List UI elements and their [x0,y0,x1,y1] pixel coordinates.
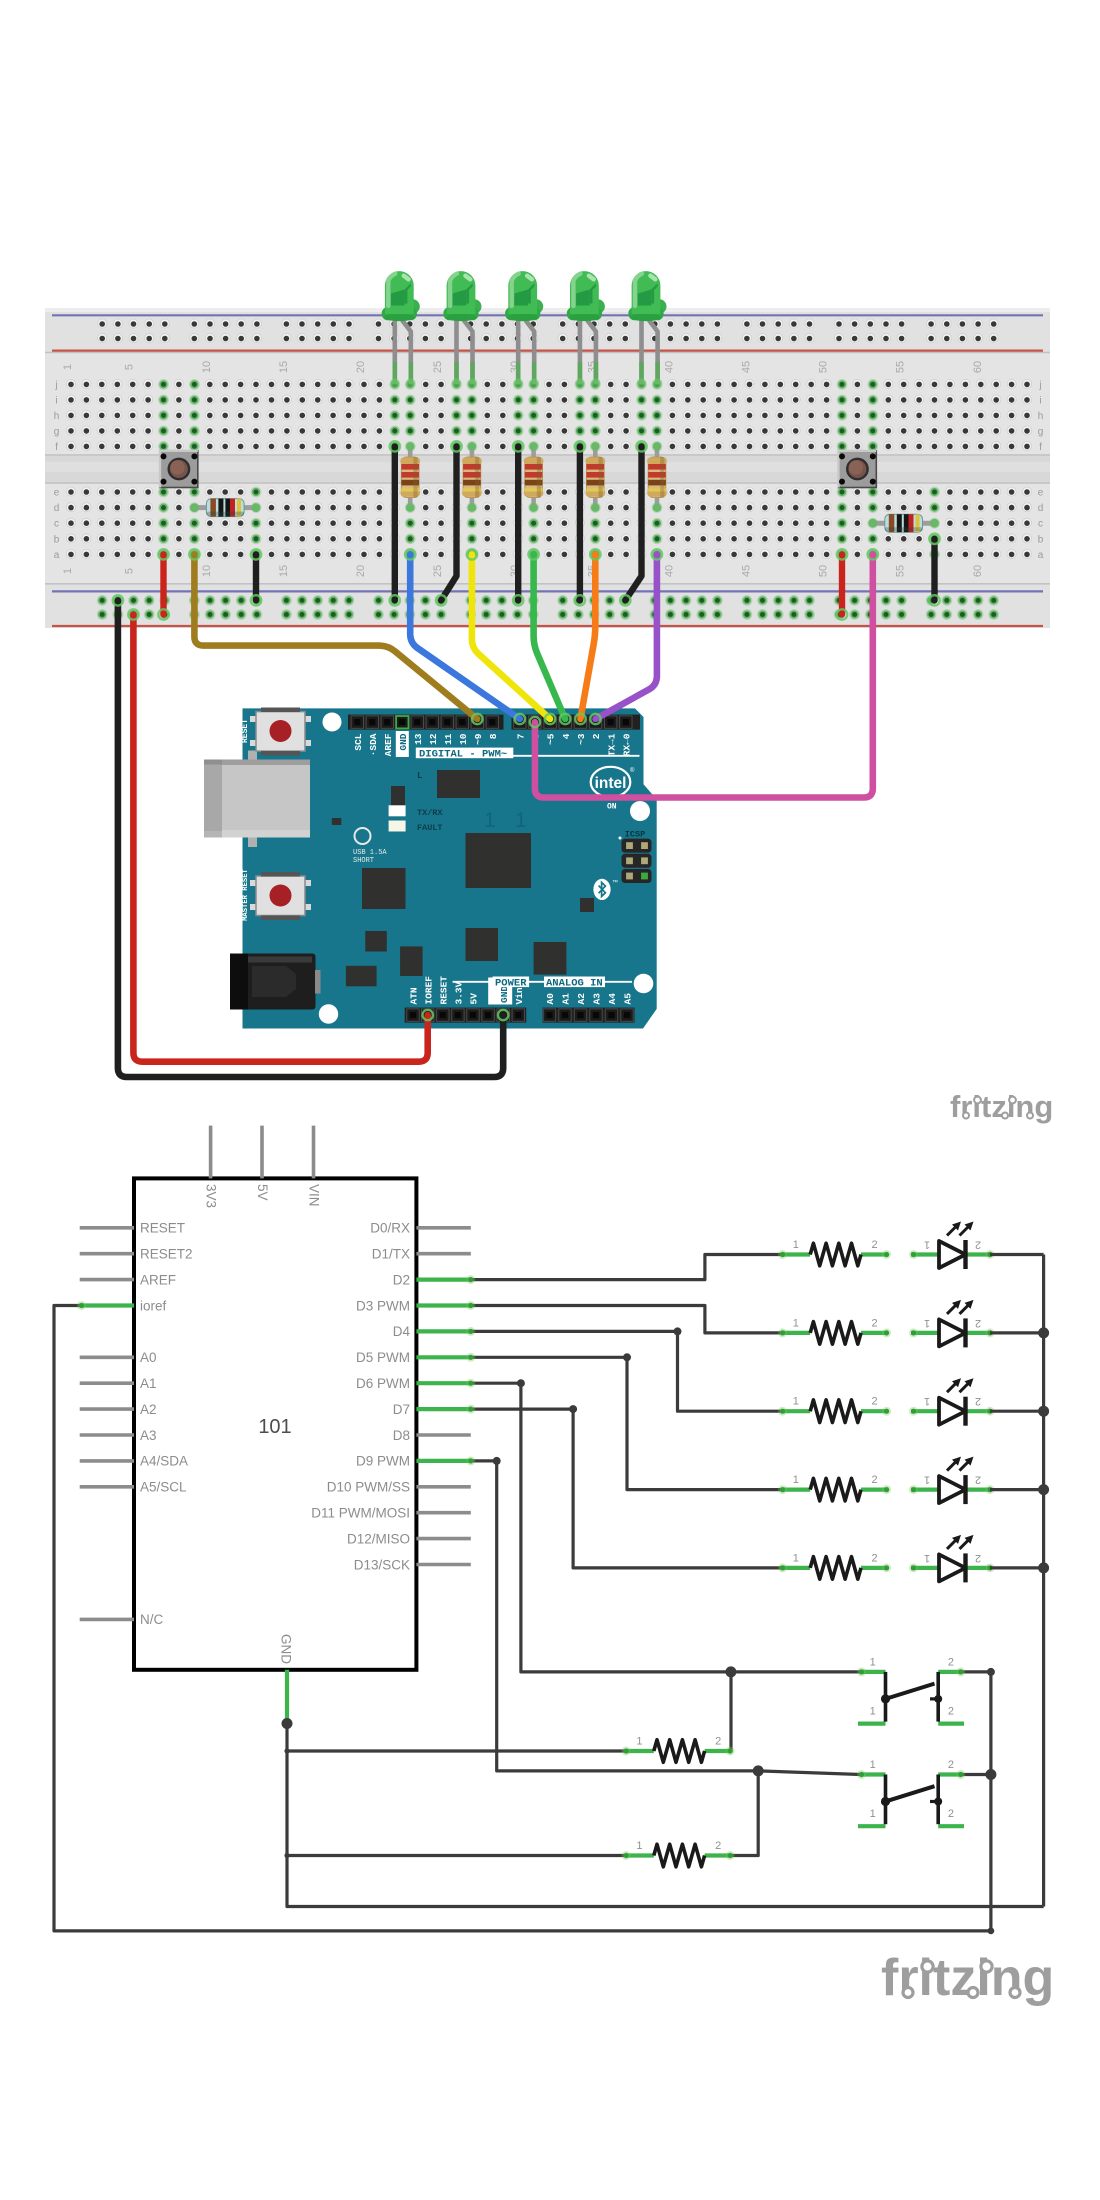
svg-text:i: i [55,395,57,406]
svg-text:13: 13 [413,733,424,745]
svg-text:b: b [1038,534,1044,545]
svg-text:15: 15 [278,565,290,577]
svg-text:1: 1 [793,1552,799,1564]
svg-text:1: 1 [924,1317,930,1329]
svg-text:20: 20 [355,361,367,373]
svg-text:DIGITAL - PWM~: DIGITAL - PWM~ [419,748,507,760]
wire black (LED cathode col22 row F to bottom blue rail) [390,441,400,605]
svg-text:5V: 5V [469,993,480,1005]
svg-text:10: 10 [458,733,469,745]
wire magenta (pin 6 to S2 col53) [530,549,878,797]
svg-text:55: 55 [895,361,907,373]
svg-text:c: c [1038,519,1043,530]
resistor R12 (schematic, LED row 5) [778,1552,891,1579]
pushbutton S2 (breadboard) [839,451,877,488]
svg-text:c: c [54,519,59,530]
wire net D6 to S1 [466,1379,860,1678]
wire R6 to D6 net [729,1672,732,1751]
svg-text:d: d [1038,503,1044,514]
svg-text:D1/TX: D1/TX [372,1247,410,1262]
svg-text:45: 45 [741,361,753,373]
svg-text:FAULT: FAULT [417,823,443,833]
Arduino 101 board [204,708,657,1029]
svg-text:A1: A1 [561,993,572,1005]
svg-text:1: 1 [870,1706,876,1718]
wire R7 to D9 net [731,1771,758,1856]
svg-text:~9: ~9 [473,733,484,745]
svg-text:a: a [1038,550,1044,561]
svg-text:A4/SDA: A4/SDA [140,1454,188,1469]
intel logo [591,767,635,797]
resistor R6 220R (breadboard, vertical) [586,442,606,512]
svg-text:1: 1 [484,809,496,832]
svg-text:2: 2 [948,1656,954,1668]
svg-text:1: 1 [636,1840,642,1852]
resistor R3 220R (breadboard, vertical) [400,442,420,512]
svg-text:g: g [54,426,60,437]
svg-text:A2: A2 [140,1402,157,1417]
IC U1 Arduino/Genuino 101 (schematic) [80,1126,471,1722]
svg-text:2: 2 [948,1808,954,1820]
LED LED1 (green, breadboard) [382,271,420,388]
wire net D2 to LED1 [466,1255,782,1285]
svg-text:GND: GND [279,1634,294,1664]
svg-text:10: 10 [201,361,213,373]
wire black (bottom blue rail to Arduino GND) [113,595,509,1077]
svg-text:POWER: POWER [495,977,527,989]
resistor R11 (schematic, LED row 4) [778,1474,891,1501]
ICs / chips on board [332,770,594,986]
LED D1 (schematic) [909,1222,995,1270]
svg-text:2: 2 [975,1395,981,1407]
svg-text:50: 50 [818,565,830,577]
pushbutton S1 (breadboard) [160,451,198,488]
svg-text:h: h [54,411,60,422]
svg-text:D7: D7 [393,1402,410,1417]
svg-text:AREF: AREF [383,733,394,756]
svg-text:1: 1 [870,1656,876,1668]
resistor R6 (schematic, S1 pulldown) [622,1736,735,1763]
svg-text:A0: A0 [545,993,556,1005]
svg-text:RESET2: RESET2 [140,1247,193,1262]
svg-text:ICSP: ICSP [625,830,645,840]
svg-text:2: 2 [591,733,602,739]
wire red (bottom red rail to Arduino IOREF) [128,609,433,1061]
svg-text:1: 1 [793,1396,799,1408]
svg-text:2: 2 [975,1317,981,1329]
wire net D4 to LED3 [466,1327,782,1411]
svg-text:2: 2 [948,1706,954,1718]
svg-text:2: 2 [872,1317,878,1329]
svg-text:60: 60 [972,361,984,373]
LED LED4 (green, breadboard) [567,271,605,388]
svg-text:j: j [54,380,57,391]
svg-text:D0/RX: D0/RX [370,1221,410,1236]
svg-text:D10 PWM/SS: D10 PWM/SS [327,1480,410,1495]
svg-text:D2: D2 [393,1272,410,1287]
wire S1/S2 pin2 vertical [962,1668,997,1931]
svg-text:d: d [54,503,60,514]
svg-text:e: e [1038,488,1044,499]
svg-text:N/C: N/C [140,1612,164,1627]
svg-text:™: ™ [612,879,618,886]
svg-text:ioref: ioref [140,1298,167,1313]
resistor R1 10k (breadboard, horizontal) [190,499,260,517]
svg-text:25: 25 [432,565,444,577]
svg-text:D12/MISO: D12/MISO [347,1531,410,1546]
svg-text:40: 40 [663,565,675,577]
fritzing logo (small) [950,1089,1053,1124]
svg-text:g: g [1038,426,1044,437]
wire LED D1 to bus [990,1253,1044,1256]
wire purple (col39 to pin 2) [590,549,662,724]
resistor R8 (schematic, LED row 1) [778,1239,891,1266]
wire black (LED cathode col34 row F to bottom blue rail) [575,441,585,605]
wire black (LED cathode col30 row F to bottom blue rail) [513,441,523,605]
svg-text:MASTER RESET: MASTER RESET [242,868,250,920]
resistor R7 (schematic, S2 pulldown) [622,1840,735,1867]
LED LED2 (green, breadboard) [443,271,481,387]
barrel jack power connector [230,954,321,1010]
svg-text:f: f [1039,442,1042,453]
wire net D5 to LED4 [466,1353,782,1490]
svg-text:VIN: VIN [307,1184,322,1207]
bluetooth logo [593,879,618,900]
svg-text:~3: ~3 [576,733,587,745]
analog header strip [543,1008,635,1023]
svg-text:11: 11 [443,733,454,745]
svg-text:1: 1 [793,1474,799,1486]
wire black (LED cathode col26 row F to bottom blue rail) [436,441,462,605]
svg-text:2: 2 [872,1552,878,1564]
wire net D3 to LED2 [466,1301,782,1333]
wire black (LED cathode col38 row F to bottom blue rail) [620,441,647,605]
resistor R2 10k (breadboard, horizontal) [868,514,939,532]
svg-text:D8: D8 [393,1428,410,1443]
svg-text:2: 2 [975,1239,981,1251]
svg-text:TX/RX: TX/RX [417,808,443,818]
svg-text:L: L [417,771,422,781]
wire S2 pin2 link [962,1773,991,1776]
LED D3 (schematic) [909,1378,995,1426]
svg-text:RESET: RESET [241,719,250,743]
pushbutton S2 (schematic) [857,1759,965,1826]
svg-text:D5 PWM: D5 PWM [356,1350,410,1365]
svg-text:ATN: ATN [409,987,420,1004]
svg-text:ON: ON [607,803,617,812]
svg-text:40: 40 [663,361,675,373]
LED LED5 (green, breadboard) [628,271,666,388]
svg-text:A3: A3 [592,993,603,1005]
svg-text:1: 1 [793,1239,799,1251]
svg-text:A3: A3 [140,1428,157,1443]
svg-text:A5/SCL: A5/SCL [140,1480,187,1495]
svg-text:b: b [54,534,60,545]
svg-text:~5: ~5 [546,733,557,745]
svg-text:RESET: RESET [140,1221,185,1236]
svg-text:1: 1 [870,1759,876,1771]
svg-text:D3 PWM: D3 PWM [356,1298,410,1313]
svg-text:50: 50 [818,361,830,373]
svg-text:RESET: RESET [438,976,449,1005]
svg-text:SCL: SCL [353,733,364,750]
wire yellow (col27 to pin 5) [467,549,556,724]
ICSP header [619,830,652,884]
wire LED D3 to bus [990,1410,1044,1413]
svg-text:SHORT: SHORT [353,857,374,865]
svg-text:1: 1 [515,809,527,832]
svg-text:60: 60 [972,565,984,577]
wire green (col31 to pin 4) [528,549,570,724]
svg-text:20: 20 [355,565,367,577]
svg-text:RX←0: RX←0 [621,733,632,756]
svg-text:A2: A2 [576,993,587,1005]
svg-text:j: j [1038,380,1041,391]
svg-text:12: 12 [428,733,439,745]
wire red (S2 col51 row A to bottom red rail) [837,549,847,620]
wire LED cathode bus [1038,1255,1049,1907]
svg-text:2: 2 [872,1474,878,1486]
wire net GND [282,1718,1044,1907]
svg-text:1: 1 [62,364,74,370]
svg-text:1: 1 [924,1474,930,1486]
RESET button [250,708,311,756]
svg-text:45: 45 [741,565,753,577]
wire LED D4 to bus [990,1488,1044,1491]
resistor R10 (schematic, LED row 3) [778,1396,891,1423]
svg-text:i: i [1039,395,1041,406]
wire brown (S1 col9 to pin 9) [189,549,482,724]
svg-text:D6 PWM: D6 PWM [356,1376,410,1391]
svg-text:1: 1 [62,568,74,574]
wire orange (col35 to pin 3) [575,549,600,724]
svg-text:1: 1 [924,1239,930,1251]
svg-text:101: 101 [258,1416,291,1438]
wire LED D2 to bus [990,1331,1044,1334]
resistor R4 220R (breadboard, vertical) [462,442,482,512]
svg-text:e: e [54,488,60,499]
svg-text:USB 1.5A: USB 1.5A [353,849,387,857]
svg-text:1: 1 [636,1736,642,1748]
breadboard [45,308,1050,628]
svg-text:A5: A5 [623,993,634,1005]
svg-text:2: 2 [948,1759,954,1771]
svg-text:D4: D4 [393,1324,411,1339]
wire net D9 to S2 [466,1456,860,1776]
svg-text:D13/SCK: D13/SCK [354,1557,410,1572]
svg-text:5: 5 [124,364,136,370]
LED D4 (schematic) [909,1457,995,1505]
resistor R7 220R (breadboard, vertical) [647,442,667,512]
resistor R9 (schematic, LED row 2) [778,1317,891,1344]
svg-text:D11 PWM/MOSI: D11 PWM/MOSI [311,1506,410,1521]
svg-text:5V: 5V [255,1184,270,1201]
svg-text:2: 2 [975,1552,981,1564]
svg-text:intel: intel [595,775,627,792]
svg-text:3V3: 3V3 [204,1184,219,1208]
svg-text:1: 1 [793,1317,799,1329]
svg-text:a: a [54,550,60,561]
svg-text:1: 1 [924,1552,930,1564]
LED D5 (schematic) [909,1535,995,1583]
svg-text:A1: A1 [140,1376,157,1391]
wire net D7 to LED5 [466,1405,782,1568]
LED LED3 (green, breadboard) [505,271,543,388]
USB connector [204,751,310,848]
svg-text:8: 8 [488,733,499,739]
svg-text:5: 5 [124,568,136,574]
svg-text:10: 10 [201,565,213,577]
MASTER RESET button [250,872,311,920]
pushbutton S1 (schematic) [857,1656,965,1723]
fritzing logo (large) [881,1949,1054,2007]
svg-text:2: 2 [715,1840,721,1852]
svg-text:A0: A0 [140,1350,157,1365]
digital header strip [348,715,640,730]
LED D2 (schematic) [909,1300,995,1348]
svg-text:Vin: Vin [514,987,525,1004]
svg-text:2: 2 [872,1239,878,1251]
svg-text:2: 2 [975,1474,981,1486]
svg-text:ANALOG IN: ANALOG IN [546,977,603,989]
wire black (col57 row B to bottom blue rail) [929,534,939,606]
svg-text:25: 25 [432,361,444,373]
resistor R5 220R (breadboard, vertical) [524,442,544,512]
svg-text:2: 2 [715,1736,721,1748]
svg-text:AREF: AREF [140,1272,176,1287]
svg-text:D9 PWM: D9 PWM [356,1454,410,1469]
svg-text:TX→1: TX→1 [606,733,617,756]
svg-text:h: h [1038,411,1044,422]
svg-text:GND: GND [398,733,409,750]
wire black (R1 col13 row A to bottom blue rail) [251,549,261,605]
svg-text:7: 7 [515,733,526,739]
wire LED D5 to bus [990,1566,1044,1569]
wire net ioref (bottom rail) [54,1301,994,1934]
wire blue (col23 to pin 7) [405,549,525,724]
svg-text:·SDA: ·SDA [368,733,379,756]
svg-text:2: 2 [872,1396,878,1408]
svg-text:1: 1 [870,1808,876,1820]
svg-text:f: f [55,442,58,453]
wire red (S1 col7 row A to bottom red rail) [158,549,168,620]
svg-text:IOREF: IOREF [423,976,434,1005]
svg-text:15: 15 [278,361,290,373]
power header strip [405,1008,527,1023]
svg-text:55: 55 [895,565,907,577]
svg-text:A4: A4 [607,993,618,1005]
svg-text:1: 1 [924,1395,930,1407]
svg-text:®: ® [630,767,635,774]
svg-text:3.3V: 3.3V [454,981,465,1004]
svg-text:4: 4 [561,733,572,739]
